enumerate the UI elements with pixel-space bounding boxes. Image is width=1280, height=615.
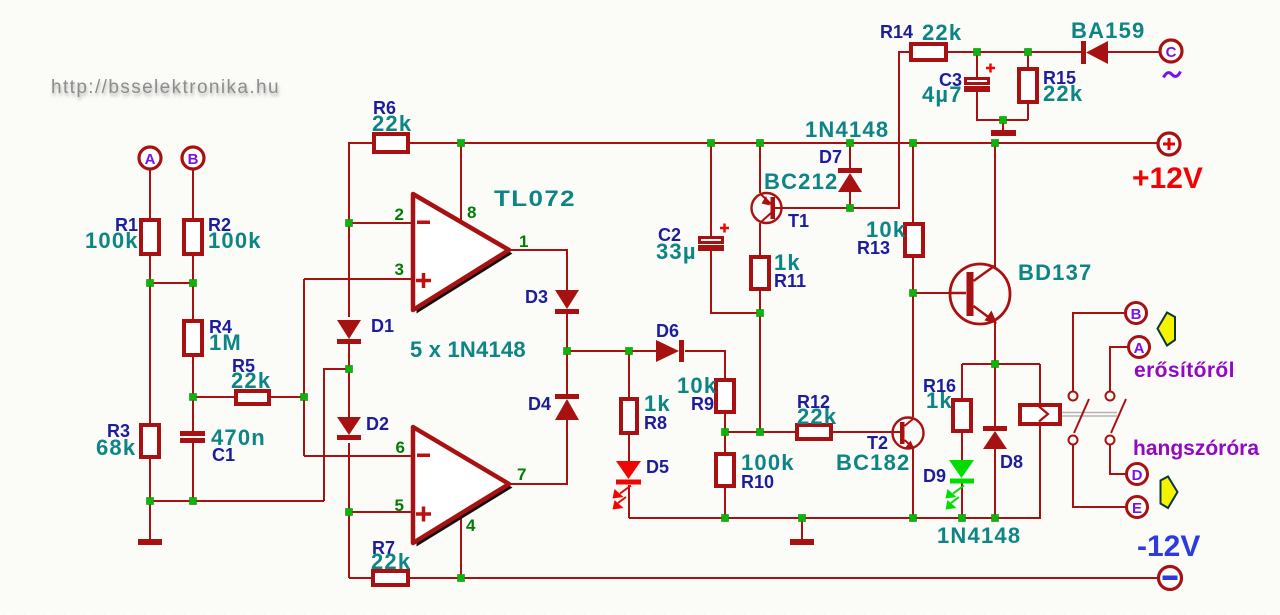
diode D8 <box>983 426 1007 449</box>
wire opamp pin2 <box>349 222 413 224</box>
wire R16 to D9 <box>961 433 963 460</box>
svg-text:BC182: BC182 <box>836 450 910 475</box>
svg-text:B: B <box>188 151 199 168</box>
svg-text:R13: R13 <box>857 238 890 258</box>
svg-text:BC212: BC212 <box>764 169 838 194</box>
capacitor C2 <box>698 224 729 252</box>
relay coil K1 <box>1020 405 1060 424</box>
resistor R12 <box>797 425 831 439</box>
svg-text:D9: D9 <box>923 466 946 486</box>
svg-text:7: 7 <box>517 465 526 484</box>
svg-text:R14: R14 <box>880 22 913 42</box>
diode BA159 <box>1081 41 1108 64</box>
terminal B input <box>182 147 204 169</box>
svg-text:D1: D1 <box>371 316 394 336</box>
wire R15 top <box>1027 52 1029 67</box>
wire top rail to D7 <box>849 143 851 168</box>
svg-text:100k: 100k <box>208 228 262 253</box>
resistor R1 <box>141 220 159 254</box>
junction pin8 top rail <box>458 140 465 147</box>
junction ground row left <box>147 498 154 505</box>
transistor T1 BC212 pnp <box>752 193 783 223</box>
wire contact2 top to terminal A <box>1110 347 1129 391</box>
ground symbol C3 <box>991 130 1016 136</box>
wire C2 bottom to R11 line <box>711 251 760 313</box>
junction C2 top rail <box>708 140 715 147</box>
wire D2 down to bottom rail <box>348 443 350 578</box>
wire R13 to T2 collector <box>912 258 914 417</box>
svg-text:1: 1 <box>519 232 528 251</box>
junction T1 top rail <box>757 140 764 147</box>
wire R3 to ground row <box>149 459 151 501</box>
junction R13-BD137 base <box>910 290 917 297</box>
wire ground stub mid <box>801 518 803 539</box>
junction R13 top rail <box>910 140 917 147</box>
terminal E output <box>1127 497 1148 518</box>
svg-text:A: A <box>1134 340 1145 357</box>
junction R5 right <box>301 394 308 401</box>
wire contact2 bottom to terminal D <box>1110 445 1127 474</box>
svg-text:hangszóróra: hangszóróra <box>1133 437 1259 460</box>
op-amp U1B plus input mark <box>416 507 431 522</box>
resistor R11 <box>751 257 769 289</box>
wire bottom -12V rail <box>410 577 1158 579</box>
wire R15 bottom <box>1027 104 1029 120</box>
junction R5 left <box>190 394 197 401</box>
wire node row to R12 <box>725 431 795 433</box>
junction ground row C1 <box>190 498 197 505</box>
resistor R8 <box>621 399 637 433</box>
junction pin4 bottom rail <box>458 575 465 582</box>
junction pin5 node <box>346 509 353 516</box>
svg-text:D2: D2 <box>366 414 389 434</box>
svg-text:3: 3 <box>395 260 404 279</box>
wire BD137 collector to top rail <box>994 143 996 267</box>
capacitor C3 <box>964 64 995 93</box>
relay actuator bar <box>1062 413 1117 417</box>
wire opamp1 output to D3 <box>509 250 567 290</box>
terminal C <box>1160 40 1182 62</box>
capacitor C1 <box>180 431 205 443</box>
wire R6 left down <box>349 143 372 223</box>
op-amp U1A shadow <box>417 198 513 314</box>
resistor R16 <box>953 400 971 431</box>
resistor R5 <box>236 391 269 404</box>
resistor R15 <box>1019 69 1037 102</box>
wire R2 to R4 <box>192 256 194 319</box>
terminal D output <box>1127 464 1148 485</box>
wire R4 to C1 <box>192 357 194 431</box>
wire bottom rail to R7 <box>349 577 371 579</box>
svg-text:BD137: BD137 <box>1018 260 1092 285</box>
junction D8 mid rail <box>992 515 999 522</box>
svg-text:BA159: BA159 <box>1071 18 1145 43</box>
svg-text:D: D <box>1132 467 1143 484</box>
op-amp U1A plus input mark <box>416 273 431 288</box>
wire ground stub C3 <box>1002 120 1004 130</box>
wire top rail to C2 <box>710 143 712 236</box>
svg-text:R10: R10 <box>741 472 774 492</box>
diode D6 <box>656 340 684 362</box>
led D9 green <box>946 460 975 510</box>
wire contact1 bottom to terminal E <box>1073 445 1127 507</box>
yellow arrow out <box>1161 477 1178 509</box>
diode D1 <box>337 320 361 344</box>
svg-text:6: 6 <box>396 438 405 457</box>
resistor R10 <box>716 454 734 486</box>
op-amp U1A minus input mark <box>417 221 430 225</box>
svg-text:1N4148: 1N4148 <box>937 523 1021 548</box>
svg-text:D6: D6 <box>656 321 679 341</box>
wire node to D4 <box>566 351 568 394</box>
op-amp U1B minus input mark <box>417 454 430 458</box>
wire C3 top <box>976 52 978 77</box>
wire D5 to mid rail <box>628 485 630 518</box>
wire R5 left <box>193 396 234 398</box>
ground symbol left <box>138 539 162 545</box>
svg-text:8: 8 <box>467 203 476 222</box>
svg-text:erősítőről: erősítőről <box>1134 359 1235 382</box>
wire opamp pin8 <box>460 143 462 221</box>
op-amp U1B <box>413 427 509 543</box>
resistor R6 <box>374 134 408 152</box>
wire opamp pin4 <box>460 515 462 578</box>
wire R8 to D5 <box>628 435 630 461</box>
junction D9 mid rail <box>959 515 966 522</box>
ground symbol mid <box>790 539 814 545</box>
wire T2 emitter to mid rail <box>912 449 914 518</box>
wire opamp pin5 <box>349 511 413 513</box>
svg-text:D3: D3 <box>525 287 548 307</box>
svg-text:1M: 1M <box>209 330 242 355</box>
svg-text:22k: 22k <box>922 20 962 45</box>
junction C3 ground node <box>1000 117 1007 124</box>
svg-text:5 x 1N4148: 5 x 1N4148 <box>410 337 526 362</box>
wire opamp pin6 <box>304 455 413 457</box>
junction R8 node <box>626 348 633 355</box>
svg-text:B: B <box>1131 306 1142 323</box>
svg-text:5: 5 <box>395 496 404 515</box>
junction BD137 top rail <box>992 140 999 147</box>
svg-text:4µ7: 4µ7 <box>922 82 963 107</box>
svg-text:4: 4 <box>466 516 476 535</box>
wire R10 to mid rail <box>724 488 726 518</box>
terminal tilde <box>1164 72 1181 78</box>
wire D7 anode to base row <box>849 192 851 208</box>
diode D3 <box>555 290 579 314</box>
wire terminal B to R2 <box>192 170 194 218</box>
resistor R9 <box>716 380 734 412</box>
svg-text:22k: 22k <box>372 111 412 136</box>
svg-text:R9: R9 <box>691 394 714 414</box>
junction ground mid rail <box>799 515 806 522</box>
terminal A output <box>1129 337 1150 358</box>
wire D9 to mid rail <box>961 483 963 518</box>
wire C1 to ground row <box>192 443 194 501</box>
svg-text:R8: R8 <box>644 413 667 433</box>
svg-text:68k: 68k <box>96 435 136 460</box>
junction D3-D4 node <box>564 348 571 355</box>
svg-text:-12V: -12V <box>1137 530 1200 563</box>
wire BD137 emitter <box>994 321 996 364</box>
wire relay coil top <box>1039 364 1041 403</box>
resistor R2 <box>184 220 202 254</box>
wire D6 to R9 <box>685 351 725 378</box>
junction C2-R11 node <box>757 310 764 317</box>
svg-text:TL072: TL072 <box>494 186 576 211</box>
svg-text:2: 2 <box>395 205 404 224</box>
yellow arrow in <box>1158 313 1176 346</box>
wire mid ground rail y518 <box>629 426 1040 518</box>
diode D7 <box>838 168 862 192</box>
svg-text:470n: 470n <box>211 425 266 450</box>
diode D2 <box>337 417 361 440</box>
relay contact 1 <box>1069 392 1090 445</box>
wire terminal A to R1 <box>149 170 151 218</box>
svg-text:22k: 22k <box>797 404 837 429</box>
wire R11 down to R12 row <box>759 291 761 432</box>
wire BA159 to terminal C <box>1108 51 1160 53</box>
svg-text:+12V: +12V <box>1132 162 1203 195</box>
resistor R13 <box>905 224 923 256</box>
svg-text:1N4148: 1N4148 <box>805 117 889 142</box>
svg-text:1k: 1k <box>926 388 953 413</box>
svg-text:T1: T1 <box>788 211 809 231</box>
junction D1-D2 node <box>346 366 353 373</box>
wire D8 bottom <box>994 449 996 518</box>
transistor T2 BC182 npn <box>893 418 924 450</box>
wire D4 to opamp pin7 <box>509 418 567 484</box>
wire R1 to R3 through node <box>149 256 151 423</box>
wire R9 to R10 <box>724 414 726 452</box>
op-amp U1B shadow <box>417 431 513 547</box>
svg-text:D8: D8 <box>1000 452 1023 472</box>
wire top rail to T1 <box>759 143 761 193</box>
junction R11-R12 node <box>757 429 764 436</box>
resistor R4 <box>184 321 202 355</box>
wire node row D3-D6 <box>567 350 656 352</box>
wire opamp pin3 <box>304 278 413 280</box>
junction D7 top rail <box>847 140 854 147</box>
wire D8 top <box>994 364 996 426</box>
wire x304 riser <box>303 279 305 456</box>
wire node A-B bridge <box>150 282 193 284</box>
wire top rail to R13 <box>912 143 914 222</box>
wire D3 to node row <box>566 314 568 351</box>
junction BD137 emitter row <box>992 361 999 368</box>
svg-text:A: A <box>145 151 156 168</box>
op-amp U1A <box>413 194 509 310</box>
junction T2 emitter mid rail <box>910 515 917 522</box>
terminal -12V <box>1159 567 1182 590</box>
led D5 red <box>613 461 642 510</box>
diode D4 <box>555 394 579 420</box>
svg-text:D5: D5 <box>646 457 669 477</box>
junction R2 bridge <box>190 280 197 287</box>
wire +12V top rail <box>410 142 1158 144</box>
relay coil chevron <box>1039 407 1048 422</box>
svg-text:D7: D7 <box>819 147 842 167</box>
wire emitter row y364 <box>962 363 1040 365</box>
resistor R7 <box>373 571 408 585</box>
wire T1 collector to R11 <box>759 223 761 255</box>
junction T1 base D7 <box>847 205 854 212</box>
wire T1 base row <box>782 52 911 208</box>
wire node to R8 <box>628 351 630 397</box>
wire R5 right <box>271 396 304 398</box>
wire D1 to D2 <box>348 343 350 417</box>
junction node 2 <box>346 220 353 227</box>
svg-text:R11: R11 <box>774 271 806 291</box>
resistor R3 <box>141 425 159 457</box>
wire C3 bottom to ground node <box>977 92 1028 120</box>
junction R1 bridge <box>147 280 154 287</box>
wire contact1 top to terminal B <box>1073 313 1126 391</box>
wire R12 to T2 base <box>833 431 893 433</box>
junction R9-R10 node <box>722 429 729 436</box>
svg-text:33µ: 33µ <box>656 239 697 264</box>
svg-text:http://bsselektronika.hu: http://bsselektronika.hu <box>51 77 280 98</box>
wire ground stub left <box>149 501 151 539</box>
svg-text:E: E <box>1132 500 1142 517</box>
wire R14 to BA159 <box>948 51 1081 53</box>
terminal +12V <box>1158 133 1180 155</box>
wire R16 top <box>961 364 963 398</box>
svg-text:D4: D4 <box>528 394 551 414</box>
svg-text:22k: 22k <box>1043 81 1083 106</box>
junction R15 row <box>1025 49 1032 56</box>
relay contact 2 <box>1106 392 1127 445</box>
junction R10 mid rail <box>722 515 729 522</box>
svg-text:22k: 22k <box>371 549 411 574</box>
terminal A input <box>139 147 161 169</box>
transistor T3 BD137 npn <box>950 264 1010 324</box>
wire node2 to D1 <box>348 223 350 317</box>
svg-text:C: C <box>1166 44 1177 61</box>
svg-text:100k: 100k <box>85 228 139 253</box>
svg-text:22k: 22k <box>231 368 271 393</box>
wire riser x324 <box>324 369 349 501</box>
terminal B output <box>1126 303 1147 324</box>
resistor R14 <box>911 44 946 60</box>
wire BD137 base <box>913 292 950 294</box>
junction C3 row left <box>974 49 981 56</box>
wire ground row y501 <box>150 500 324 502</box>
